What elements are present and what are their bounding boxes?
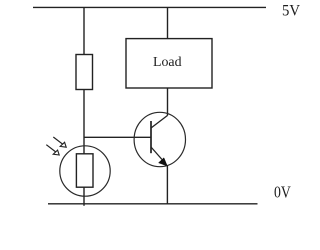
wire base connection from divider node to transistor base xyxy=(84,136,151,138)
transistor Q1 emitter arrowhead xyxy=(159,158,168,166)
transistor Q1 collector stroke xyxy=(151,115,168,128)
wire from 5V rail to resistor top xyxy=(83,7,85,54)
wire from emitter to 0V rail xyxy=(166,165,168,204)
wire 5V top rail xyxy=(33,6,266,8)
transistor Q1 emitter stroke xyxy=(151,147,162,160)
LDR body rectangle xyxy=(76,154,93,187)
wire 0V bottom rail xyxy=(48,203,258,205)
wire from LDR bottom to 0V rail xyxy=(83,187,85,206)
load box xyxy=(126,39,212,88)
svg-text:0V: 0V xyxy=(274,182,291,201)
LDR circle xyxy=(60,146,110,196)
light arrow 1 shaft xyxy=(53,137,63,145)
light arrow 1 open head xyxy=(60,142,66,147)
svg-text:Load: Load xyxy=(153,54,182,69)
wire from resistor bottom to LDR xyxy=(83,90,85,154)
svg-text:5V: 5V xyxy=(282,2,300,20)
transistor Q1 base bar xyxy=(150,121,152,153)
transistor Q1 body circle xyxy=(134,112,185,166)
resistor R1 xyxy=(76,55,93,90)
wire from 5V rail to load top xyxy=(167,7,169,38)
light arrow 2 open head xyxy=(53,150,59,155)
light arrow 2 shaft xyxy=(46,145,56,153)
wire from load bottom to transistor collector xyxy=(167,88,169,115)
